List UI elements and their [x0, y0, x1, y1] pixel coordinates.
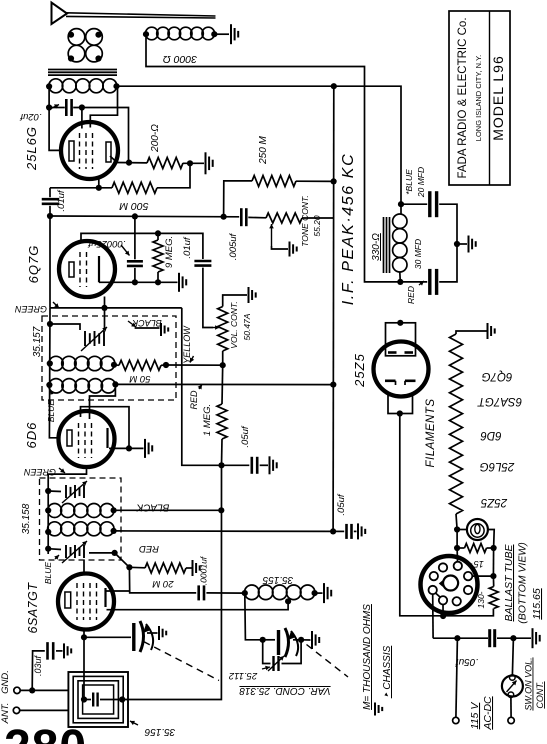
node IF1-sec-left [46, 382, 52, 388]
antenna coupling coil L1 [68, 29, 85, 62]
label tube 25Z5 [352, 353, 367, 388]
wire diode-return [99, 281, 178, 283]
svg-text:GREEN: GREEN [24, 467, 57, 477]
svg-text:.05uf: .05uf [455, 656, 478, 667]
wire y86-rail [117, 86, 402, 204]
svg-text:FILAMENTS: FILAMENTS [425, 398, 437, 467]
loop trimmer cap [84, 693, 122, 707]
wire ballast-pin7-down [442, 605, 444, 617]
ground G2 [206, 152, 213, 174]
label 115V [469, 702, 481, 730]
svg-text:50.47A: 50.47A [242, 313, 252, 340]
tube 25Z5 cathodes [385, 381, 416, 385]
svg-text:RED: RED [406, 286, 416, 304]
svg-text:.05uf: .05uf [336, 493, 347, 515]
node bus-switch [510, 635, 516, 641]
tube 6SA7GT envelope [58, 574, 114, 630]
svg-text:.01uf: .01uf [56, 189, 67, 211]
wire 3000-to-ground [217, 33, 229, 35]
node 15-right [491, 545, 497, 551]
label 330 ohm [371, 233, 382, 261]
ballast pin 7 [439, 596, 447, 604]
node RF-coil-left [46, 83, 52, 89]
wire cap03-right [56, 650, 63, 652]
tube 25L6G plate lead [110, 156, 117, 163]
wire 6D6-left [58, 437, 60, 439]
svg-text:30 MFD: 30 MFD [413, 239, 423, 269]
label 25.112 [228, 666, 270, 681]
node 20M-junction [126, 564, 132, 570]
wire 1MEG-leads [222, 365, 223, 465]
label BLUE-2 [43, 555, 59, 584]
page digits [4, 721, 87, 744]
tube 6SA7GT plate bar [104, 588, 106, 607]
label .05uf-2 [336, 493, 347, 515]
node L1 bottom [68, 55, 74, 61]
label 115.65 [531, 588, 543, 619]
note M=THOUSAND OHMS [362, 604, 373, 710]
svg-text:6D6: 6D6 [480, 429, 502, 441]
ballast pin 2 [454, 562, 462, 570]
wire loop-to-cath [83, 637, 85, 699]
wire plate-25L6G [117, 162, 147, 164]
label 250 M [258, 135, 269, 164]
node mfd-junction [454, 241, 460, 247]
label .01uf-2 [182, 236, 193, 258]
svg-text:SW.ON VOL.: SW.ON VOL. [524, 657, 534, 710]
label .03uf [33, 654, 43, 676]
svg-text:6Q7G: 6Q7G [26, 245, 41, 284]
node 6D6-cath [126, 445, 132, 451]
resistor 1MEG [217, 404, 227, 439]
label .005uf [228, 232, 239, 260]
antenna coupling coil L2 [86, 29, 103, 62]
label 20 M [152, 578, 174, 589]
wire 6D6-grid-top [90, 384, 116, 419]
ground G11 [324, 583, 331, 603]
wire 200-to-ground [183, 162, 204, 164]
node IF1-sec-right [112, 381, 118, 387]
svg-text:BLUE: BLUE [43, 562, 53, 585]
node cap02-right [79, 104, 85, 110]
node IF2-l3 [45, 529, 51, 535]
label AC-DC [482, 696, 494, 731]
tube 25Z5 plates [388, 351, 413, 354]
wire B-plus-bus [332, 86, 335, 531]
resistor TONE-CONT [266, 213, 302, 223]
tube 6Q7G plate bar [98, 256, 100, 282]
ground G13b [358, 523, 365, 539]
wire 6D6-plate-top [81, 407, 130, 449]
node IF2-B-right [111, 528, 117, 534]
wire fil-top [456, 331, 487, 334]
ground G12 [312, 631, 319, 649]
title MODEL L96 [490, 55, 506, 141]
node 330-top [398, 201, 404, 207]
wire osc-vertical [122, 465, 221, 699]
svg-text:.0001uf: .0001uf [199, 555, 209, 585]
svg-text:25Z5: 25Z5 [352, 353, 367, 388]
node IF2-l2 [45, 507, 51, 513]
node 9MEG-top [155, 230, 161, 236]
wire cap01-bottom-lead [49, 206, 51, 216]
label ANT. [0, 703, 11, 725]
label .05uf-1 [240, 425, 251, 447]
label 200 ohm [150, 124, 161, 153]
capacitor C-.05uf-2 [347, 524, 352, 539]
wire 15-leads [457, 547, 494, 549]
wire cap05-row [222, 464, 269, 466]
node diode-return-a [132, 279, 138, 285]
resistor 15ohm [465, 544, 487, 553]
node red2-bus [330, 528, 336, 534]
capacitor C-.0001uf [199, 585, 204, 600]
node L2 bottom [95, 55, 101, 61]
label fil-25L6G [480, 460, 516, 472]
resistor 20M [145, 563, 186, 573]
node IF2-l4 [45, 546, 51, 552]
node lamp-left [454, 526, 460, 532]
label BLACK-1 [128, 318, 162, 328]
node 3000-right [211, 31, 217, 37]
svg-text:CONT.: CONT. [535, 681, 545, 708]
capacitor C-.005uf [241, 208, 246, 226]
capacitor C-.05uf-1 [252, 457, 257, 474]
wire cap00025-bottom [134, 268, 136, 282]
resistor 250M [252, 176, 296, 187]
node 130-top [490, 573, 496, 579]
wire 6Q7-grid-pin [104, 297, 106, 330]
svg-text:RED: RED [189, 390, 199, 410]
node loop-left [81, 696, 87, 702]
label 20MFD [416, 167, 426, 198]
svg-text:.01uf: .01uf [182, 236, 193, 258]
tube 25Z5 envelope [374, 342, 429, 397]
svg-text:115.65: 115.65 [531, 588, 543, 619]
wire mfd-ground [457, 243, 467, 245]
label 35.157 [32, 326, 43, 357]
label 3000 ohm [163, 53, 197, 65]
label BLUE-3 [404, 169, 414, 195]
label .0001uf [199, 555, 209, 585]
osc coil 35.155 [245, 585, 315, 600]
capacitor C-.00025uf [127, 261, 143, 266]
tube 6Q7G envelope [59, 241, 115, 297]
svg-text:6SA7GT: 6SA7GT [477, 395, 522, 407]
node 6SA7-cath [81, 634, 87, 640]
node 330-bottom [397, 279, 403, 285]
ballast pin 8 [453, 597, 461, 605]
tube 25L6G envelope [61, 122, 118, 179]
svg-text:55.20: 55.20 [312, 215, 322, 237]
node ballast-pin-lead [440, 613, 446, 619]
wire yellow-line [166, 364, 223, 366]
svg-text:20 M: 20 M [152, 578, 174, 589]
label BOTTOM VIEW [517, 542, 529, 623]
node osc-cap-right [298, 637, 304, 643]
wire vol-top [223, 295, 247, 307]
wire ballast-right-rail [492, 548, 494, 576]
ballast key line [436, 593, 441, 598]
tube 6D6 envelope [59, 411, 115, 467]
label .01uf-1 [56, 189, 67, 211]
wire BLACK-ground-stem [135, 327, 160, 329]
tube 6D6 grids [79, 423, 92, 458]
wire varcap-ground [147, 632, 158, 634]
resistor 130ohm [489, 587, 498, 609]
variable capacitor osc 25.318 [279, 628, 299, 657]
resistor VOL-CONT [218, 307, 228, 352]
svg-text:25.112: 25.112 [228, 670, 258, 681]
node 250M-bus [331, 178, 337, 184]
wire 500M-left [50, 187, 112, 189]
wire osc-coil-ground [315, 592, 323, 594]
label tube 6D6 [24, 422, 39, 449]
wire cath-to-varcap [84, 636, 131, 638]
label .00025uf [87, 238, 129, 256]
node cathode-25L6G [96, 185, 102, 191]
ground G8 [270, 456, 277, 474]
tube 25Z5 cathode box [388, 396, 413, 414]
wire cap0001-right [206, 592, 244, 594]
label fil-6D6 [480, 429, 502, 441]
capacitor C-.05uf-3 [490, 629, 495, 647]
ground G16 [533, 628, 540, 648]
label 35.158 [21, 503, 32, 534]
terminal GND [14, 687, 20, 693]
node bus-cap00025 [132, 213, 138, 219]
wire lamp-leads [457, 530, 494, 549]
wire switch-drop [512, 638, 513, 675]
ground G1 [231, 24, 238, 44]
wire grid-stub-25L6G [81, 108, 83, 129]
node 3000-left [143, 31, 149, 37]
svg-text:6D6: 6D6 [24, 422, 39, 449]
node mid-junction [218, 462, 224, 468]
svg-text:VAR. COND. 25.318: VAR. COND. 25.318 [239, 685, 331, 696]
svg-text:250 M: 250 M [258, 135, 269, 164]
svg-text:.005uf: .005uf [228, 232, 239, 260]
title FADA RADIO [457, 17, 469, 178]
label GND. [0, 670, 11, 694]
coil 330 ohm [393, 204, 407, 282]
svg-text:6Q7G: 6Q7G [482, 370, 513, 382]
node loop-right [119, 696, 125, 702]
wire red-line [115, 383, 333, 385]
wire 50M-leads [114, 364, 166, 367]
node RF-coil-right [113, 83, 119, 89]
wire avc-bus [50, 215, 239, 218]
svg-text:LONG ISLAND CITY, N.Y.: LONG ISLAND CITY, N.Y. [474, 55, 483, 141]
wire term-drop [456, 638, 458, 717]
node diode-return-b [155, 279, 161, 285]
wire IF2-trim-bot-link [48, 549, 114, 553]
svg-text:I.F. PEAK·456 KC: I.F. PEAK·456 KC [340, 153, 357, 305]
ground G4 [290, 242, 297, 257]
svg-text:BLUE: BLUE [46, 400, 56, 423]
terminal line-2 [508, 717, 514, 723]
node IF2-A-right [111, 507, 117, 513]
tube 6D6 plate bar [106, 428, 108, 448]
tube 25L6G cathode bar [69, 141, 74, 161]
node 200-right [187, 160, 193, 166]
label 35.155 [262, 574, 293, 585]
wire 250M-left [224, 181, 252, 217]
wire 130-top-lead [492, 576, 494, 586]
node cap02-left [46, 104, 52, 110]
label FILAMENTS [425, 398, 437, 467]
label 500M [119, 200, 148, 212]
tube BALLAST envelope [421, 556, 478, 613]
node red-bus [330, 382, 336, 388]
node gnd-junction [29, 687, 35, 693]
label YELLOW [182, 325, 194, 364]
svg-text:BALLAST TUBE: BALLAST TUBE [503, 543, 515, 621]
wire left-bus-IF1 [49, 308, 58, 438]
tube 6Q7G grids [80, 252, 87, 287]
note =CHASSIS [382, 645, 393, 698]
svg-text:.03uf: .03uf [33, 654, 43, 676]
ground G6 [161, 323, 168, 336]
trimmer IF2-bottom [62, 541, 87, 563]
coil 3000 ohm [145, 27, 214, 40]
svg-text:FADA RADIO & ELECTRIC Co.: FADA RADIO & ELECTRIC Co. [457, 17, 469, 178]
node L2 top [95, 32, 101, 38]
pilot lamp [467, 519, 488, 540]
wire cap01-2-down [203, 268, 213, 328]
wire screen-tap [90, 86, 117, 127]
label 50.47A [242, 313, 252, 340]
ground G5 [249, 287, 256, 303]
capacitor C-20MFD [430, 191, 437, 217]
resistor FILAMENTS [450, 334, 463, 514]
ground G9 [193, 560, 200, 576]
label GREEN-1 [15, 302, 59, 314]
ballast pin 3 [430, 572, 438, 580]
ground G13 [159, 626, 166, 640]
label tube 25L6G [24, 126, 39, 171]
svg-text:(BOTTOM VIEW): (BOTTOM VIEW) [517, 542, 529, 623]
IF3 core [384, 217, 390, 273]
label 30MFD [413, 239, 423, 269]
svg-text:3000 Ω: 3000 Ω [163, 53, 197, 65]
label 50M [129, 373, 150, 384]
label tube 6SA7GT [26, 582, 40, 634]
label 15 ohm [466, 559, 484, 569]
title block frame [449, 11, 510, 185]
wire IF1-left-drop [49, 216, 51, 308]
ground G15 [488, 323, 495, 339]
trimmer 25.112 [263, 640, 301, 671]
capacitor C-.01uf-1 [42, 199, 60, 204]
wire cap02-row [49, 108, 128, 161]
label .05uf-3 [455, 656, 478, 667]
wire 20mfd-row [401, 204, 457, 244]
capacitor C-.01uf-2 [194, 261, 211, 266]
wire 6SA7-top-pin [83, 560, 85, 574]
node IF2-bot-right [112, 550, 118, 556]
node IF1-pri-left [47, 360, 53, 366]
wire osc-cap-ground [301, 639, 310, 641]
wire 20M-down [129, 567, 196, 593]
wire black-line-2 [114, 509, 222, 511]
wire bus-to-tone [248, 216, 266, 218]
wire cap05-2-stub [333, 530, 356, 532]
wire IF1-trim-link [50, 324, 80, 330]
node osc-coil-right [312, 590, 318, 596]
svg-text:MODEL L96: MODEL L96 [490, 55, 506, 141]
wire ballast-left-rail [456, 548, 458, 561]
note chassis ground symbol [375, 703, 382, 716]
wire grid-25L6G [49, 86, 61, 150]
wire vol-bottom [222, 351, 224, 365]
ground G3 [179, 273, 186, 292]
wire 3000-down-right-rail [146, 34, 400, 282]
svg-text:VOL. CONT.: VOL. CONT. [229, 301, 239, 348]
svg-text:35.156: 35.156 [144, 726, 175, 737]
variable capacitor ant 25.318 [134, 621, 153, 652]
wire ballast-pin-right [472, 575, 493, 577]
IF2 coil B [48, 522, 114, 536]
svg-text:25Z5: 25Z5 [480, 496, 508, 508]
gang dashed line 2 [307, 645, 349, 678]
node B-plus-top [331, 83, 337, 89]
svg-text:35.157: 35.157 [32, 326, 43, 357]
node bus-term [454, 635, 460, 641]
label 1 MEG. [202, 404, 213, 436]
node plate-25L6G [126, 160, 132, 166]
svg-text:25L6G: 25L6G [24, 126, 39, 171]
resistor 50M [119, 360, 161, 370]
wire IF1-top-line [50, 307, 182, 309]
terminal line-1 [453, 717, 459, 723]
svg-text:35.155: 35.155 [262, 574, 293, 585]
label GREEN-2 [24, 467, 65, 477]
label BLUE-1 [46, 390, 56, 422]
wire 9MEG-top [157, 233, 159, 240]
wire red-line-2 [114, 530, 334, 533]
label RED-2 [139, 543, 159, 554]
capacitor C-.03uf [48, 642, 54, 660]
wire gnd-up-cap03 [32, 651, 45, 691]
wire 30mfd-row [400, 244, 457, 282]
wire cap00025-top [134, 216, 136, 259]
svg-text:280: 280 [4, 721, 87, 744]
wire fil-bottom [456, 514, 457, 530]
ballast pin 5 [429, 586, 437, 594]
svg-text:M= THOUSAND OHMS: M= THOUSAND OHMS [362, 604, 373, 710]
svg-text:GREEN: GREEN [15, 304, 48, 314]
wire ant-terminal [20, 709, 69, 711]
label RED-3 [406, 281, 424, 304]
capacitor C-30MFD [430, 269, 437, 295]
label fil-6SA7GT [477, 395, 522, 407]
IF1 primary coil [49, 356, 115, 370]
tube 6D6 cathode bar [67, 430, 72, 446]
svg-text:RED: RED [139, 543, 159, 554]
trimmer IF1 [81, 327, 107, 351]
node IF2-l1 [45, 488, 51, 494]
label 55.20 [312, 215, 322, 237]
label I.F. PEAK 456KC [340, 153, 357, 305]
node 6Q7-grid-junction [101, 305, 107, 311]
ground G14 [64, 643, 71, 658]
IF1 secondary coil [49, 379, 116, 393]
tube 6SA7GT grids [77, 583, 97, 620]
ballast center key [441, 576, 459, 591]
svg-text:35.158: 35.158 [21, 503, 32, 534]
label fil-6Q7G [482, 370, 513, 382]
